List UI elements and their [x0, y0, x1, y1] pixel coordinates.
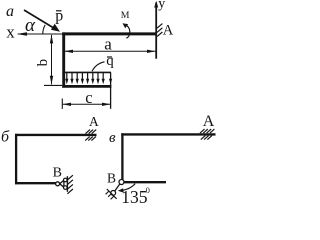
svg-text:c: c: [85, 88, 92, 107]
x axis: [17, 32, 65, 36]
fig b top bar: [15, 134, 97, 136]
label P bar: [55, 7, 63, 24]
svg-text:A: A: [203, 113, 215, 130]
support A hatching (fig a): [157, 24, 162, 37]
frame bottom beam: [62, 85, 111, 88]
fig b support wall: [66, 176, 68, 192]
fig b bottom bar: [15, 182, 56, 184]
svg-text:x: x: [6, 23, 15, 42]
dimension c line with arrows: [62, 99, 110, 109]
label q bar: [106, 53, 114, 69]
fig b hinge circle: [56, 182, 60, 186]
load right end line with arrow: [109, 72, 112, 108]
svg-text:135: 135: [121, 187, 148, 205]
svg-text:p: p: [55, 7, 63, 24]
moment arrow: [123, 23, 130, 38]
svg-text:B: B: [53, 166, 62, 181]
svg-text:a: a: [104, 35, 112, 54]
q leader line: [92, 62, 105, 72]
svg-text:б: б: [1, 129, 10, 146]
fig v roller circle: [111, 191, 116, 196]
distributed load top line: [62, 71, 111, 73]
force P line: [24, 10, 60, 32]
fig v bottom bar: [124, 181, 166, 183]
dimension b line with arrows: [50, 35, 53, 85]
svg-text:A: A: [163, 23, 174, 39]
fig b support A hatching below: [85, 137, 96, 141]
svg-text:в: в: [109, 130, 116, 146]
frame vertical member: [62, 32, 65, 87]
angle arc: [43, 25, 45, 34]
fig v inclined ground line: [107, 189, 117, 199]
svg-text:b: b: [35, 59, 51, 67]
dimension a line with arrows: [64, 50, 155, 53]
fig v 135 angle arc: [118, 184, 135, 193]
fig v support A hatching below: [201, 136, 212, 140]
fig v top bar: [121, 133, 215, 135]
y axis with wall line: [154, 1, 158, 59]
fig v ground hatching: [106, 191, 114, 199]
frame top beam: [62, 32, 156, 35]
fig b support A hatching above: [86, 130, 97, 134]
svg-text:0: 0: [146, 185, 150, 195]
fig v 135 degree label: [121, 185, 150, 207]
fig b left bar: [15, 134, 17, 184]
fig v hinge circle: [119, 180, 124, 185]
svg-text:M: M: [121, 10, 130, 21]
distributed load arrows: [65, 73, 105, 84]
svg-text:q: q: [106, 53, 114, 69]
b extension line: [44, 84, 62, 86]
svg-text:A: A: [89, 114, 99, 129]
fig v link to roller: [115, 184, 120, 191]
fig b wall hatching: [67, 175, 73, 194]
fig v left bar: [121, 133, 123, 179]
svg-text:y: y: [158, 0, 165, 12]
svg-text:B: B: [107, 170, 116, 185]
fig b rollers: [64, 178, 68, 182]
svg-text:a: a: [6, 3, 14, 20]
fig v support A hatching above: [200, 129, 214, 133]
svg-text:α: α: [25, 15, 36, 36]
fig b roller triangle: [60, 180, 64, 187]
